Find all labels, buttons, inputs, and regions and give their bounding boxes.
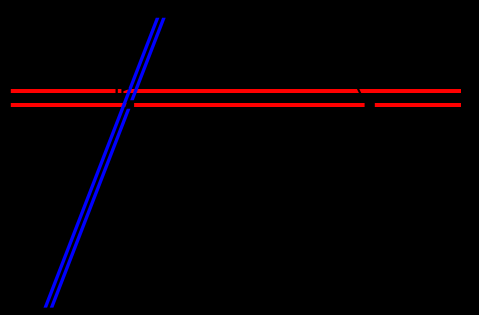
blue transversal line 2 (right) — [50, 18, 166, 308]
label cutout A2 wedge over top red line — [121, 88, 128, 94]
blue transversal line 1 (left) — [44, 18, 160, 308]
label cutout D over bottom red line (right) — [365, 102, 375, 107]
red parallel line 2 (bottom horizontal) — [11, 103, 461, 107]
red parallel line 1 (top horizontal) — [11, 89, 461, 93]
label cutout A1 over top red line — [116, 88, 118, 94]
label cutout C diagonal notch over top red line (right) — [357, 88, 362, 94]
label cutout B over bottom red line and right blue line — [125, 100, 135, 109]
